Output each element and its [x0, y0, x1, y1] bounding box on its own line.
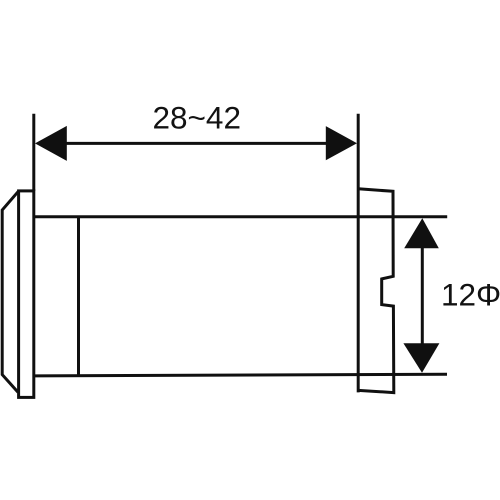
barrel right edge / eyepiece left edge / extension line right: [357, 114, 360, 393]
barrel inner step line: [77, 217, 80, 376]
arrowhead down of 12Φ: [403, 343, 439, 373]
arrowhead up of 12Φ: [404, 218, 439, 248]
dimension line 28~42 shaft: [60, 142, 332, 145]
arrowhead left of 28~42: [35, 126, 67, 161]
flange plate (tall thin rectangle): [19, 191, 34, 398]
barrel tube top edge + 12Φ top extension line: [34, 215, 447, 218]
bezel cone (left trapezoid): [2, 191, 18, 392]
svg-text:12Φ: 12Φ: [441, 277, 500, 313]
eyepiece housing (right block with notch): [358, 189, 394, 393]
arrowhead right of 28~42: [326, 126, 357, 160]
dimension line 12Φ shaft: [421, 246, 424, 345]
extension line left (x=34, from top of dimension to flange): [32, 114, 35, 191]
svg-text:28~42: 28~42: [153, 100, 241, 136]
barrel tube bottom edge + 12Φ bottom extension line: [34, 374, 447, 376]
